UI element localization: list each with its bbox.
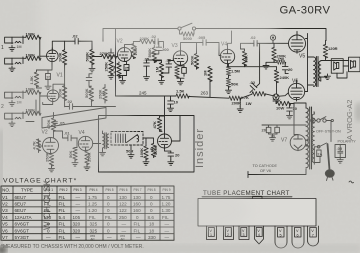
svg-text:FIL: FIL [59,235,66,240]
power transformer T1 secondary [306,107,312,169]
svg-text:Insider: Insider [194,128,206,168]
output transformer T2 secondary [319,61,321,81]
voltage chart header [2,188,171,193]
svg-text:PIN 3: PIN 3 [74,188,82,192]
resistor 100K (recovery grid) [139,143,148,160]
svg-text:320: 320 [73,228,81,233]
capacitor 25 (V3 cathode) [182,65,187,76]
capacitor (ch1 tone) [108,51,114,58]
wire: heater to switch [313,112,316,114]
tube placement chassis [198,199,316,227]
placement tube V4 [255,226,264,244]
ground (recovery grid) [143,160,149,166]
svg-text:V1: V1 [2,195,8,200]
svg-text:47K: 47K [152,121,157,128]
resistor 500K (V4 grid) [189,43,198,70]
svg-text:NO.: NO. [2,188,10,193]
capacitor 25 (V2 cathode bypass) [124,62,130,76]
capacitor .01 (osc to V4b) [54,131,78,141]
svg-text:240K: 240K [280,75,290,80]
input jack J1b (channel 1) [5,57,23,65]
ground (filter caps) [269,134,278,141]
svg-text:10W: 10W [276,106,284,111]
ground (recovery cathode) [168,160,174,166]
tube V4b (reverb driver triode) [78,136,92,151]
svg-text:25: 25 [125,66,130,71]
resistor 250K (V2b grid leak) [44,152,53,166]
resistor 200K (V5 grid) [272,43,286,62]
resistor 100K (ch1 upper mix) [23,32,41,40]
wire: center tap run [248,169,306,178]
svg-text:FIL: FIL [59,208,66,213]
tie point (phone jack) [270,35,275,43]
resistor 47K (recovery plate) [152,96,164,134]
svg-text:50R: 50R [126,149,133,154]
placement tube V2 [224,226,234,240]
ground (200R) [237,107,243,113]
potentiometer 500K (ch1 volume) [85,41,95,66]
reverb unit enclosure box [99,116,195,173]
capacitor .05 (polarity cap in box) [335,145,346,158]
ground (volume pot 1) [89,66,95,72]
svg-text:1M: 1M [203,70,208,76]
svg-text:6EU7: 6EU7 [15,195,27,200]
capacitor .02 (ch2 coupling) [65,99,79,109]
tube V1a (triode) [47,48,59,62]
wire: ch2 pot top cap [89,74,92,76]
svg-text:1M: 1M [154,66,159,72]
resistor 4.7K (V2 cathode) [112,62,121,78]
resistor 1M (tremolo osc) [154,62,163,78]
svg-text:4: 4 [258,233,260,237]
tie point V (pilot) [311,118,315,122]
resistor 120R (feedback) [323,41,337,61]
potentiometer 500K (reverb level) [151,143,158,158]
resistor 270K (to V2 grid) [92,51,118,59]
svg-text:6V6GT: 6V6GT [15,222,30,227]
ground (rail filter) [168,106,174,112]
wire: cap to volume pot [80,40,92,42]
output transformer T2 primary [314,57,319,87]
capacitor .05 (tremolo osc 1) [144,57,150,75]
svg-text:FIL: FIL [59,202,66,207]
svg-text:20: 20 [175,153,180,158]
voltage chart rows [2,195,171,241]
tube V4c (reverb recovery triode) [158,134,172,149]
svg-text:10: 10 [174,100,179,105]
ground (V3 cathode) [177,78,184,85]
wire: B+ top rail (right part) [196,29,326,41]
placement tube V5 [275,226,287,248]
input jack J2a (channel 2) [5,91,23,99]
svg-text:270K: 270K [100,51,110,56]
wire: heater return [314,158,320,163]
wire: jack to footswitch box [26,100,36,122]
ground (J2b) [9,121,15,127]
svg-text:V4: V4 [2,215,8,220]
corner blob [0,246,7,253]
ground (V5 grid) [263,62,274,69]
ground (tone pot 1) [108,74,114,80]
scan edge shadow left [0,130,3,253]
svg-text:6V6GT: 6V6GT [15,228,30,233]
placement tube V1 [207,226,217,240]
potentiometer 500K (ch2 volume) [84,82,94,101]
svg-text:PIN 2: PIN 2 [60,188,68,192]
wire: V3 grid/cathode stubs [169,43,202,66]
ground (tremolo osc) [144,75,150,81]
input jack J1a (channel 1) [5,36,23,44]
svg-text:12AU7A: 12AU7A [15,215,33,220]
tube V7 (rectifier) [290,135,306,151]
resistor 4.7K (V2b cathode) [31,139,42,153]
capacitor 200 (to ground) [154,42,169,55]
tube V3 (triode) [173,48,187,66]
tube V2 (triode) [118,45,132,62]
svg-text:100K: 100K [139,148,144,158]
svg-text:500K: 500K [189,55,194,65]
label 50R (tank coil) [126,145,133,154]
svg-text:—: — [107,235,112,240]
potentiometer 500K (depth) [147,46,157,63]
svg-text:2: 2 [227,233,229,237]
resistor 200R (on rail) [229,96,241,107]
resistor 470K (V2b plate) [46,113,56,138]
resistor 100K (ch1 lower mix) [23,53,41,61]
diagonal capacitor .02 (V6 drive) [250,43,260,92]
wire: V1b cathode [43,102,53,105]
ground (polarity cap) [337,158,343,164]
capacitor 20 (V6 cathode) [282,65,293,74]
resistor 50K (V4b grid) [68,138,77,161]
svg-text:1W: 1W [246,101,252,106]
ground (V4 lower) [226,88,232,94]
svg-text:6EU7: 6EU7 [15,208,27,213]
wire: secondary to speakers [321,61,349,82]
svg-text:.02: .02 [72,34,78,39]
resistor 100K (V1a plate load) [57,41,66,107]
tube V2b (tremolo osc triode) [43,138,59,154]
resistor 250 (V5 cathode) [274,57,286,65]
wire: recovery out [172,116,181,142]
svg-text:FIL: FIL [59,222,66,227]
reverb driver transformer [93,131,109,150]
ground (speaker common) [325,74,331,80]
ground (screen filter) [287,113,293,119]
ground (J2a) [9,101,15,107]
tube V6 (pentode) [288,80,304,101]
tube V4 (triode) [220,46,234,63]
svg-text:50K: 50K [231,82,238,87]
potentiometer 250K (ch1 tone) [104,49,114,75]
wire: V4 plate to B+ [228,31,232,46]
svg-text:TYPE: TYPE [21,188,33,193]
wire: preamp rail 245/263 [116,96,241,98]
svg-text:200R: 200R [232,101,242,106]
capacitor .005 (V3 coupling) [198,35,222,56]
power transformer T1 primary [312,114,314,162]
label TO CATHODE OF V6 [253,164,278,173]
wire: B+ feed down to preamp rail [115,29,117,97]
wire: B+ top rail (left part) [103,29,178,42]
stray pen mark [349,181,354,183]
svg-text:V2: V2 [2,202,8,207]
capacitor .02 (tremolo coupling) [151,34,164,48]
placement tube V3 [239,226,249,240]
placement tube V7 [308,226,319,246]
svg-text:245: 245 [139,91,147,96]
svg-text:FIL: FIL [59,195,66,200]
wire: tank out to controls [143,138,154,143]
svg-text:FIL: FIL [59,228,66,233]
footswitch cable (long tilted box) [42,108,106,129]
svg-text:7: 7 [312,233,314,237]
capacitor 20 (filter B) [271,125,280,139]
tube V1b (triode) [47,88,59,102]
svg-text:10: 10 [293,106,298,111]
svg-text:263: 263 [201,91,209,96]
resistor 100K (V2 plate load) [125,42,139,59]
resistor 1M (tremolo inject) [203,67,213,97]
switch (power, on-stby-off) [315,117,333,142]
svg-text:5: 5 [280,233,282,237]
ground (J1a) [9,46,15,52]
svg-text:—: — [46,235,51,240]
capacitor .02 (V5 coupling) [250,35,288,46]
resistor 250K (V4b cathode) [85,150,92,165]
capacitor 20 (filter A) [262,125,271,134]
resistor 1.5K (V1 cathode) [29,70,39,88]
tube V5 (pentode) [289,31,306,53]
capacitor +20 (recovery cathode) [165,149,181,160]
ground (V2 cathode) [120,78,126,84]
wire: V1 cathodes join [37,62,53,88]
ground (V2b) [49,166,55,172]
svg-text:100K: 100K [57,52,62,62]
ground (V4b grid) [72,161,78,167]
speaker A [331,59,343,73]
switch (standby on B+ rail) [178,23,196,30]
wire: ch2 signal to volume pot 2 [78,100,91,107]
reverb tank (dashed pan) [111,132,143,146]
capacitor .05 (tremolo osc 2) [166,58,172,74]
fuse 2A [317,150,323,157]
capacitor +10 (screen filter) [287,103,298,113]
svg-text:V6: V6 [2,228,8,233]
resistor 100K (V1b plate load) [53,84,67,100]
svg-text:—: — [76,235,81,240]
wire: B+ node to filter caps [262,104,306,135]
wire: ch2 signal into reverb box [78,106,115,108]
wire: V1a plate up to coupling line [52,41,73,50]
svg-text:5Y3GT: 5Y3GT [15,235,30,240]
wire: ch2 mix junction to V1b grid [39,92,47,113]
tube placement chart title [202,190,292,197]
wire: V5 plate to output transformer [297,33,314,92]
svg-text:5.4: 5.4 [59,215,66,220]
svg-text:V5: V5 [299,54,305,60]
resistor 100K (ch2 upper mix) [23,87,41,95]
capacitor +10 (rail filter) [168,96,179,106]
wire: HT to V7 plates [294,103,310,146]
ground (driver transformer) [100,150,106,156]
ground (V1 cathode) [45,84,51,90]
svg-text:4.7K: 4.7K [112,65,117,74]
resistor 50K (V4 lower) [226,75,238,88]
ground (V4b cathode) [84,165,90,171]
svg-text:VOLTAGE CHART*: VOLTAGE CHART* [3,178,77,185]
svg-text:6EU7: 6EU7 [15,202,27,207]
ground (J1b) [9,66,15,72]
wire: tremolo network joins [147,60,169,74]
resistor 1.5K (rail dropper) [176,89,189,99]
speaker B [349,57,360,71]
resistor 240K (screen bleed) [274,67,289,94]
voltage chart grid [1,186,174,240]
svg-text:1M: 1M [17,45,22,49]
svg-text:1.5M: 1.5M [231,69,241,74]
ground (tremolo osc 2) [159,78,165,84]
wire: V4 out to V5 line [228,43,277,66]
reverb tank springs [116,134,139,143]
svg-text:V5: V5 [2,222,8,227]
resistor 5000 (across switch) [180,30,195,41]
placement tube V6 [292,226,304,248]
resistor 100K (ch2 lower mix) [23,108,41,116]
switch (polarity) [314,143,326,164]
svg-text:6: 6 [297,233,299,237]
wire: mix junction to V1a grid [39,37,46,58]
potentiometer 250K (ch2 tone) [98,85,108,104]
wire: V6 plate to transformer [305,91,308,93]
svg-text:250K: 250K [104,62,109,72]
power cord [328,144,330,170]
paper mottling [0,65,130,175]
wire: V2 cathode join [119,62,127,79]
plug [325,170,334,181]
svg-text:V3: V3 [2,208,8,213]
capacitor .02 (ch1 coupling) [72,34,80,44]
tie point V (screen node) [273,94,279,104]
resistor 50K (V4 follower) [242,49,248,67]
svg-text:GA-30RV: GA-30RV [280,5,331,17]
svg-text:A VROG-A2: A VROG-A2 [345,100,354,140]
resistor 4.7K 1W (V6 grid feed) [240,92,288,106]
svg-text:1.5K: 1.5K [176,89,185,94]
capacitor 20 (V1 cathode bypass) [46,70,52,84]
resistor 5.2K 10W (screen dropper) [273,98,295,111]
svg-text:3: 3 [243,233,245,237]
svg-text:20: 20 [288,67,293,72]
svg-text:WICH CLSK: WICH CLSK [42,180,52,230]
ground (tank) [128,153,134,159]
input jack J2b (channel 2) [5,112,23,120]
resistor 1.5M (V4 bias) [226,64,240,76]
resistor 1K (V3 cathode) [175,67,179,79]
wire: speaker bottoms [337,66,349,78]
svg-text:1: 1 [1,45,4,51]
resistor 220K (V2 plate to cap) [133,36,155,44]
svg-text:120R: 120R [328,46,338,51]
capacitor (ch2 tone) [86,76,92,83]
svg-text:V7: V7 [2,235,8,240]
